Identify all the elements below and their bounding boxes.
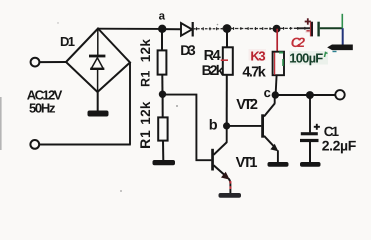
- bridge inner diode lower lead: [97, 69, 99, 92]
- wire D3 to R4 node (dotty in scan): [193, 28, 224, 30]
- capacitor C1 plus sign: [316, 124, 318, 130]
- wire C2 right plate to ground drop: [320, 27, 343, 29]
- svg-text:50Hz: 50Hz: [29, 101, 56, 116]
- VT2 emitter arrowhead: [270, 144, 278, 152]
- resistor R4 upper lead: [226, 29, 228, 48]
- resistor R3 red upper lead: [276, 29, 278, 52]
- VT1 collector vertical to node b: [226, 126, 228, 142]
- diode D3 anode wire: [162, 28, 181, 30]
- svg-text:R1: R1: [138, 70, 152, 87]
- terminal T3 (output): [335, 90, 344, 99]
- wire R4 node to R3 node: [230, 28, 274, 30]
- svg-text:c: c: [264, 85, 271, 100]
- bridge inner diode lead: [97, 29, 99, 55]
- VT2 emitter lead: [277, 150, 279, 162]
- capacitor C1 upper lead: [309, 95, 311, 132]
- wire R3 node to C2: [280, 27, 298, 29]
- VT1 emitter arrowhead: [221, 172, 230, 180]
- ground under VT2: [268, 162, 289, 167]
- scan specks: [176, 105, 178, 107]
- terminal T2 (AC input bottom): [30, 140, 39, 149]
- transistor VT1 base bar: [211, 149, 214, 171]
- node c dot 1: [272, 91, 279, 98]
- ground under bridge: [97, 92, 99, 111]
- navy drop line to top-right ground: [342, 28, 344, 45]
- svg-text:a: a: [159, 10, 166, 22]
- resistor R4 body: [223, 47, 233, 75]
- VT2 collector vertical to node c: [274, 95, 276, 104]
- node junction between R1s: [159, 91, 166, 98]
- diode D3 triangle: [181, 23, 192, 36]
- svg-text:VT2: VT2: [236, 97, 258, 113]
- svg-text:K3: K3: [250, 48, 265, 63]
- VT2 collector diagonal: [264, 104, 275, 117]
- resistor R3 body: [273, 52, 284, 75]
- resistor R3 lower lead to node c: [276, 75, 277, 95]
- svg-text:2.2µF: 2.2µF: [322, 138, 357, 154]
- VT2 emitter diagonal: [264, 136, 275, 148]
- resistor R1 (bottom) body: [158, 117, 167, 140]
- VT1 emitter diagonal: [214, 165, 226, 176]
- capacitor C2 left plate: [311, 22, 313, 37]
- resistor R1 (top) lead: [161, 29, 163, 51]
- teal tick under top-right ground: [333, 51, 337, 53]
- svg-text:12k: 12k: [138, 101, 153, 125]
- VT1 collector diagonal: [214, 142, 227, 155]
- left edge scan artifact: [0, 97, 2, 150]
- resistor R1 (bottom) lead: [162, 94, 164, 117]
- capacitor C1 bottom plate: [300, 139, 319, 142]
- svg-text:100µF: 100µF: [289, 51, 323, 66]
- ground under VT1: [219, 193, 242, 198]
- wire bridge right corner down: [129, 63, 131, 145]
- node R3 top: [273, 25, 281, 33]
- bridge rectifier D1 diamond: [66, 29, 130, 93]
- resistor R1 (top) lower lead: [161, 75, 163, 95]
- node a: [158, 25, 166, 33]
- diode D3 cathode bar: [192, 22, 194, 37]
- resistor R4 lower lead to node b: [226, 75, 228, 126]
- resistor R1 (top) body: [158, 50, 167, 74]
- wire node b to VT2 base: [227, 125, 262, 127]
- ground top right (bar with left taper): [327, 45, 353, 51]
- bridge inner diode cathode bar: [89, 55, 105, 58]
- label K3 (red): [249, 49, 267, 61]
- capacitor C2 plus sign: [307, 18, 309, 24]
- node b: [223, 122, 230, 129]
- capacitor C1 top plate: [301, 132, 318, 135]
- terminal T1 (AC input top): [31, 58, 40, 67]
- label 100uF (dark green): [289, 51, 328, 65]
- ground under bottom R1: [153, 160, 176, 165]
- wire T2 to bridge right corner line: [39, 144, 130, 146]
- svg-text:b: b: [209, 117, 218, 133]
- wire bridge apex to node a: [98, 28, 162, 30]
- svg-text:R1: R1: [137, 129, 153, 149]
- capacitor C2 right plate: [317, 22, 319, 37]
- resistor R1 (bottom) lower lead: [162, 141, 164, 161]
- VT1 emitter lead (with red marks): [229, 179, 231, 194]
- wire junction to VT1 base: [163, 95, 212, 161]
- capacitor C1 lower lead: [309, 142, 311, 163]
- bridge inner diode triangle: [91, 58, 103, 69]
- svg-text:B2k: B2k: [202, 62, 224, 78]
- node c wire: [275, 94, 336, 96]
- svg-text:VT1: VT1: [236, 155, 258, 171]
- node c dot 2: [306, 91, 314, 99]
- svg-text:12k: 12k: [138, 39, 153, 63]
- svg-text:D1: D1: [60, 34, 75, 49]
- green whisker above wire: [341, 14, 343, 28]
- resistor R4 top junction node: [223, 24, 232, 33]
- transistor VT2 base bar: [261, 114, 264, 137]
- ground under C1: [300, 162, 321, 167]
- svg-text:4.7k: 4.7k: [242, 64, 266, 80]
- wire T1 to bridge left corner: [40, 61, 67, 63]
